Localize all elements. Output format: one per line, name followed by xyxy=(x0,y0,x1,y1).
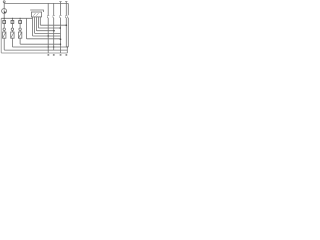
connector drop5 xyxy=(66,16,69,18)
timer leg 1 xyxy=(33,17,61,36)
junction dots xyxy=(4,18,5,19)
heater R2 col2 xyxy=(11,30,13,32)
motor M1 xyxy=(2,9,7,14)
wire col1 to bottom bus xyxy=(4,38,67,50)
terminal box col1 xyxy=(3,18,5,20)
wire bus y=18.3 xyxy=(1,17,32,19)
terminal box col2 xyxy=(11,18,13,20)
timer leg 3 xyxy=(36,17,54,31)
lamp ring col3 xyxy=(19,23,21,28)
terminal circle top-left xyxy=(3,1,5,3)
timer leg 4 xyxy=(38,17,60,28)
lamp ring col1 xyxy=(3,23,5,28)
timer internal mark xyxy=(33,13,38,16)
right drop 2 x=53.7 xyxy=(53,3,55,50)
wire terminal to motor xyxy=(3,3,5,9)
wire right pair merge xyxy=(66,47,68,53)
wire drop from y18.3 at x26.4 xyxy=(26,18,60,39)
lamp ring col2 xyxy=(11,23,13,28)
terminal box col3 xyxy=(19,18,21,20)
timer leg 2 xyxy=(35,17,61,34)
heater R3 col3 xyxy=(19,30,21,32)
wire tap y=10 xyxy=(30,10,43,12)
wire col3 to bottom bus xyxy=(20,38,60,44)
top bus wire xyxy=(4,2,68,4)
right drop 3 x=60.5 top cap xyxy=(59,2,61,53)
wire col2 to bottom bus xyxy=(12,38,68,47)
right drop 1 x=48.2 xyxy=(47,3,49,53)
wire left outer loop xyxy=(1,18,67,53)
connector drop4 xyxy=(65,15,67,18)
connector drop2 xyxy=(53,15,55,18)
wire motor to junction xyxy=(3,14,5,19)
connector drop1 xyxy=(47,15,49,18)
heater R1 col1 xyxy=(3,30,5,32)
timer leg 5 xyxy=(40,17,66,25)
timer box K1 xyxy=(31,12,41,17)
terminal labels bottom xyxy=(48,54,68,56)
right drop 5 x=68.3 xyxy=(67,3,69,47)
connector drop3 xyxy=(60,15,62,18)
right drop 4 x=66.3 top cap xyxy=(65,2,67,47)
